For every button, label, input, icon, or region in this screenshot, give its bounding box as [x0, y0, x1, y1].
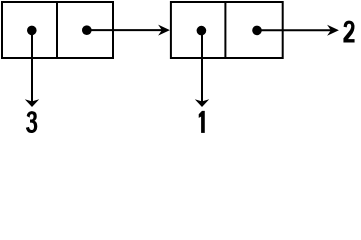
cell 1 cdr pointer dot [82, 25, 92, 35]
value 3 [26, 111, 37, 132]
wire: cell 2 cdr to value 2 [257, 29, 332, 31]
cons cell 2 box [171, 2, 283, 58]
cell 2 car pointer dot [197, 26, 207, 36]
cons cell 1 box [2, 2, 113, 58]
value 1 [199, 111, 205, 132]
arrowhead: cell 1 car down [25, 99, 39, 107]
cons cell 2 divider [224, 2, 226, 58]
cell 1 car pointer dot [27, 26, 37, 36]
arrowhead: cell 2 car down [195, 99, 209, 107]
cons cell 1 divider [56, 2, 58, 58]
wire: cell 1 cdr to cell 2 [87, 29, 163, 31]
cell 2 cdr pointer dot [252, 26, 262, 36]
arrowhead: cell 1 cdr into cell 2 [158, 25, 170, 36]
value 2 [344, 21, 355, 42]
arrowhead: cell 2 cdr [327, 25, 339, 36]
wire: cell 2 car down [201, 31, 203, 103]
wire: cell 1 car down [31, 30, 33, 102]
